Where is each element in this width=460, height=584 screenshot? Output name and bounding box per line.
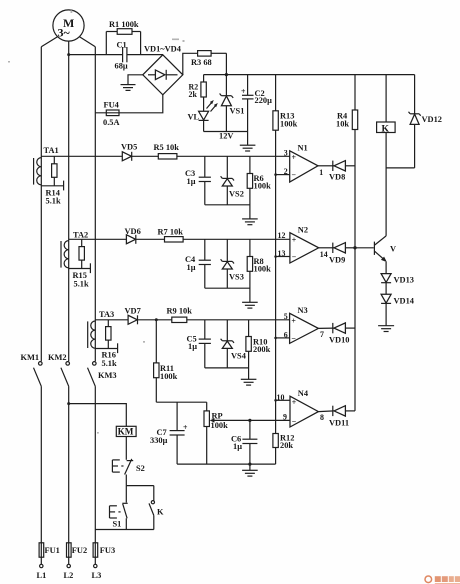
svg-text:+: + <box>292 236 297 245</box>
speck marks (scan artifacts) <box>8 9 185 434</box>
svg-text:R5 10k: R5 10k <box>154 143 180 152</box>
svg-text:FU2: FU2 <box>72 546 87 555</box>
wire phase line 1 lower <box>40 386 42 564</box>
wire S2 to branch point <box>125 475 127 486</box>
wire phase line 2 upper (motor to KM2) <box>68 41 70 361</box>
node junction bus / N4 pin10 <box>274 399 277 402</box>
resistor R16 5.1k <box>102 320 117 368</box>
svg-text:12: 12 <box>278 231 286 240</box>
node junction output bus / transistor base <box>353 246 356 249</box>
svg-text:R9 10k: R9 10k <box>167 306 193 315</box>
svg-text:5.1k: 5.1k <box>102 359 117 368</box>
svg-text:1μ: 1μ <box>233 442 242 451</box>
terminal L1 <box>37 564 47 580</box>
diode VD5 <box>121 142 158 161</box>
contact K (self-hold) <box>149 501 164 517</box>
wire N3 output to VD10 <box>318 327 334 329</box>
svg-text:8: 8 <box>320 413 324 422</box>
wire +12V rail <box>204 74 415 76</box>
svg-text:100k: 100k <box>160 372 178 381</box>
svg-text:2k: 2k <box>189 90 198 99</box>
contact KM3 <box>88 362 117 387</box>
op-amp N2 <box>278 225 328 263</box>
svg-text:VS3: VS3 <box>229 272 244 281</box>
node junction bus / N3 pin6 <box>274 337 277 340</box>
transistor V <box>374 236 396 274</box>
svg-text:3: 3 <box>284 149 288 158</box>
svg-text:5.1k: 5.1k <box>74 279 89 288</box>
wire row2 network bottom tie <box>205 287 250 289</box>
node junction bus / N1 pin2 <box>274 173 277 176</box>
svg-text:FU4: FU4 <box>104 100 120 109</box>
svg-text:FU1: FU1 <box>45 546 60 555</box>
capacitor C1 68u (series) <box>115 41 128 71</box>
wire K contact upper lead <box>153 486 155 501</box>
svg-text:+: + <box>183 423 188 432</box>
relay coil K <box>377 75 396 236</box>
svg-text:C1: C1 <box>117 41 127 50</box>
svg-text:R7 10k: R7 10k <box>158 227 184 236</box>
svg-text:7: 7 <box>320 330 324 339</box>
wire N3 inverting input from reference bus <box>276 337 290 339</box>
wire N4 +input from reference bus <box>276 399 290 401</box>
svg-text:200k: 200k <box>253 345 271 354</box>
svg-text:+: + <box>292 153 297 162</box>
wire N1 inverting input from reference bus <box>276 174 290 176</box>
svg-text:VS1: VS1 <box>230 107 245 116</box>
svg-text:68μ: 68μ <box>115 62 128 71</box>
capacitor C7 330u <box>150 402 188 464</box>
resistor R14 5.1k <box>46 156 61 205</box>
wire phase line 3 lower <box>94 386 96 564</box>
wire bridge plus corner up to R3 <box>183 53 198 75</box>
svg-text:VD7: VD7 <box>125 306 141 315</box>
zener VD12 (relay clamp) <box>409 75 442 168</box>
svg-text:VD5: VD5 <box>121 142 137 151</box>
ground (row1 network) <box>242 219 258 225</box>
contact KM1 <box>21 353 43 386</box>
wire TA1 row (row 1) to N1 +input <box>41 155 122 157</box>
svg-text:VS4: VS4 <box>231 351 247 360</box>
node junction wiper line / C6 <box>248 419 251 422</box>
svg-text:+: + <box>291 316 296 325</box>
op-amp N3 <box>284 306 324 344</box>
wire bridge bottom corner to FU4 <box>119 95 163 113</box>
svg-text:S2: S2 <box>136 464 145 473</box>
svg-text:+: + <box>241 87 246 96</box>
wire N1 output to VD8 <box>318 165 334 167</box>
watermark logo <box>425 576 460 584</box>
svg-text:R1 100k: R1 100k <box>109 20 139 29</box>
LED VL <box>188 100 218 132</box>
svg-text:100k: 100k <box>280 120 298 129</box>
svg-text:100k: 100k <box>254 182 272 191</box>
wire row4 bottom tie <box>177 463 276 465</box>
svg-text:V: V <box>390 244 396 253</box>
diode VD6 <box>125 227 165 244</box>
wire phase line 1 upper (motor to KM1) <box>40 47 42 362</box>
ground (C2 / 12V common) <box>240 145 256 151</box>
ground (row2 network) <box>242 302 258 308</box>
svg-text:VD13: VD13 <box>394 275 414 284</box>
wire TA2 row (row 2) to N2 +input <box>69 238 127 240</box>
diode VD8 <box>329 161 355 182</box>
resistor R11 100k <box>154 320 178 402</box>
pushbutton S1 (start, NO) <box>110 503 128 528</box>
capacitor C5 1u <box>187 320 211 368</box>
fuse FU3 <box>93 543 115 557</box>
svg-text:5.1k: 5.1k <box>46 197 61 206</box>
wire N4 output to VD11 <box>318 410 334 413</box>
svg-text:L2: L2 <box>64 571 74 580</box>
wire S1 upper lead <box>125 486 127 503</box>
zener VS4 <box>221 320 247 368</box>
fuse FU1 <box>39 543 60 557</box>
wire C1 to bridge top corner <box>127 54 163 56</box>
svg-text:K: K <box>157 507 164 516</box>
wire KM coil branch <box>69 404 127 427</box>
diode VD13 <box>381 274 414 295</box>
TA3 secondary terminal tick <box>117 343 119 353</box>
wire VL/VS1 bottom tie <box>204 131 248 133</box>
wire TA3 row (row 3) to N3 +input <box>95 319 128 321</box>
zener VS3 <box>221 239 244 288</box>
wire base drive <box>355 247 374 249</box>
svg-text:L3: L3 <box>92 571 102 580</box>
contact KM2 <box>48 353 69 386</box>
zener VS1 12V <box>219 75 244 141</box>
wire N2 output to VD9 <box>319 247 334 249</box>
resistor R3 68 <box>191 51 226 67</box>
svg-text:0.5A: 0.5A <box>103 118 120 127</box>
svg-text:VD14: VD14 <box>394 296 415 305</box>
wire reference bus (R13 to R12) <box>275 130 277 433</box>
resistor R7 10k <box>158 227 290 242</box>
transformer TA3 <box>88 310 115 348</box>
svg-text:−: − <box>291 334 296 343</box>
resistor R9 10k <box>167 306 290 322</box>
wire K coil bottom to VD12 anode <box>386 167 415 169</box>
svg-text:VD8: VD8 <box>329 172 345 181</box>
wire phase line 2 lower <box>68 386 70 564</box>
svg-text:VS2: VS2 <box>229 189 244 198</box>
svg-text:1μ: 1μ <box>187 263 196 272</box>
wire supply tap to C1 <box>69 54 123 56</box>
svg-text:N2: N2 <box>298 225 308 234</box>
node junction bus / N2 pin13 <box>274 255 277 258</box>
terminal L2 <box>64 564 74 580</box>
wire K contact lower lead <box>153 515 155 529</box>
ground (row3 network) <box>241 379 257 385</box>
svg-text:3~: 3~ <box>58 26 71 40</box>
svg-text:VD10: VD10 <box>329 335 349 344</box>
diode VD9 <box>329 243 355 265</box>
svg-text:N3: N3 <box>298 306 308 315</box>
svg-text:100k: 100k <box>254 265 272 274</box>
node junction +12V rail at VS1 <box>225 73 228 76</box>
resistor R8 100k <box>247 239 271 302</box>
svg-text:KM2: KM2 <box>48 353 67 362</box>
diode VD10 <box>329 323 355 344</box>
terminal L3 <box>92 564 102 580</box>
wire R11 bottom to RP top <box>156 401 206 403</box>
svg-text:VD9: VD9 <box>329 255 345 264</box>
resistor R13 100k (reference divider top) <box>273 75 298 131</box>
transformer TA1 <box>34 146 59 185</box>
svg-text:−: − <box>292 253 297 262</box>
wire phase line 3 upper (motor to KM3) <box>94 47 96 362</box>
wire comparator output bus <box>354 130 356 411</box>
svg-text:5: 5 <box>284 312 288 321</box>
svg-text:220μ: 220μ <box>255 96 273 105</box>
capacitor C2 220u <box>241 75 272 145</box>
svg-text:VD12: VD12 <box>422 115 442 124</box>
svg-text:10k: 10k <box>336 120 349 129</box>
wire R3 down to +12V rail <box>225 53 227 74</box>
TA2 secondary terminal tick <box>89 263 91 273</box>
svg-text:14: 14 <box>320 250 328 259</box>
wire control return to phase 3 <box>95 529 154 531</box>
diode VD11 <box>329 406 355 428</box>
ground (row4 network) <box>242 464 258 476</box>
resistor R2 2k <box>189 75 207 112</box>
svg-text:TA1: TA1 <box>44 146 59 155</box>
motor M1 3-phase <box>53 10 84 41</box>
resistor R6 100k <box>247 156 271 218</box>
svg-text:S1: S1 <box>113 519 122 528</box>
node junction phase2 / supply tap <box>67 53 70 56</box>
svg-text:1μ: 1μ <box>187 177 196 186</box>
svg-text:R3 68: R3 68 <box>191 58 212 67</box>
wire TA1 secondary bottom <box>41 185 63 187</box>
wire motor left lead to phase line L1 <box>41 37 57 47</box>
ground (bridge minus) <box>121 85 136 91</box>
resistor R4 10k (comparator pull-up) <box>336 75 358 130</box>
svg-text:VD1~VD4: VD1~VD4 <box>144 45 182 54</box>
svg-text:TA3: TA3 <box>99 310 114 319</box>
wire TA2 secondary bottom <box>69 268 91 270</box>
diode VD14 <box>381 294 415 325</box>
resistor R1 100k (parallel with C1) <box>106 20 140 54</box>
op-amp N1 <box>284 143 324 182</box>
svg-text:−: − <box>292 171 297 180</box>
svg-text:L1: L1 <box>37 571 47 580</box>
svg-text:N1: N1 <box>298 143 308 152</box>
TA1 secondary terminal tick <box>63 181 65 191</box>
svg-text:330μ: 330μ <box>150 436 168 445</box>
capacitor C6 1u <box>231 420 257 464</box>
svg-text:1: 1 <box>319 168 323 177</box>
capacitor C4 1u <box>185 239 211 288</box>
zener VS2 <box>221 156 244 205</box>
svg-text:9: 9 <box>283 412 287 421</box>
contactor coil KM <box>116 426 136 436</box>
transformer TA2 <box>61 230 88 268</box>
ground (emitter chain) <box>378 326 394 332</box>
node junction bottom tie / ground <box>248 463 251 466</box>
svg-text:12V: 12V <box>219 132 233 141</box>
svg-text:100k: 100k <box>211 421 229 430</box>
svg-text:KM1: KM1 <box>21 353 40 362</box>
svg-text:TA2: TA2 <box>73 230 88 239</box>
svg-text:RP: RP <box>212 411 223 420</box>
wire motor right lead to phase line L3 <box>80 37 96 47</box>
svg-text:N4: N4 <box>298 389 309 398</box>
wire KM coil to S2 <box>125 437 127 460</box>
node junction row3 / R11 <box>155 318 158 321</box>
svg-text:FU3: FU3 <box>100 546 115 555</box>
svg-text:20k: 20k <box>280 441 293 450</box>
wire bridge minus corner to ground <box>128 75 143 85</box>
wire row3 network bottom tie <box>205 367 249 369</box>
svg-text:VD11: VD11 <box>329 418 349 427</box>
resistor R12 20k (reference divider bottom) <box>273 433 295 464</box>
resistor R5 10k <box>154 143 290 159</box>
svg-text:+: + <box>292 398 297 407</box>
svg-text:1μ: 1μ <box>188 342 197 351</box>
resistor R10 200k <box>246 320 271 379</box>
fuse FU2 <box>67 543 88 557</box>
wire TA3 secondary bottom <box>95 348 117 350</box>
capacitor C3 1u <box>185 156 211 205</box>
svg-text:VD6: VD6 <box>125 227 141 236</box>
resistor R15 5.1k <box>73 239 89 288</box>
svg-text:VL: VL <box>188 112 200 121</box>
node junction phase2 / KM coil branch <box>67 402 70 405</box>
svg-text:KM: KM <box>118 427 134 437</box>
svg-text:KM3: KM3 <box>98 371 117 380</box>
wire S1/K parallel branch top <box>126 485 154 487</box>
svg-text:−: − <box>292 417 297 426</box>
fuse FU4 0.5A <box>95 100 119 127</box>
bridge rectifier VD1~VD4 <box>143 45 183 95</box>
potentiometer RP 100k <box>204 402 290 464</box>
pushbutton S2 (stop, NC) <box>112 459 144 475</box>
wire row1 network bottom tie <box>205 204 250 206</box>
wire N2 inverting input from reference bus <box>276 256 290 258</box>
op-amp N4 <box>277 389 325 427</box>
wire S1 lower lead <box>125 518 127 529</box>
diode VD7 <box>125 306 172 324</box>
